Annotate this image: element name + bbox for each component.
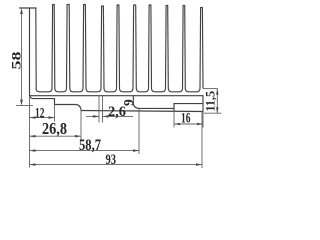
fin F4: [83, 5, 86, 89]
fin gap 7: [136, 88, 148, 92]
arrow 2,6 right (points left): [103, 115, 109, 118]
dim 26,8 line: [30, 135, 82, 137]
dim 58,7 line: [30, 150, 140, 152]
fin F2: [52, 5, 55, 89]
arrow 93 right: [196, 163, 202, 166]
dim 12 right extension: [54, 105, 56, 122]
left foot step edge x=54.5: [54, 99, 56, 105]
fin F5: [101, 6, 104, 88]
svg-text:9: 9: [121, 99, 136, 106]
arrow 2,6 left (points right): [93, 115, 99, 118]
fin gap 9: [168, 88, 182, 92]
dim 58 bottom tick: [16, 105, 33, 107]
dim 16 line: [174, 123, 203, 125]
pedestal step edge x=133: [132, 96, 134, 104]
right edge of profile: [202, 96, 204, 112]
fin F1 (left wall): [20, 8, 37, 88]
dim 93 right extension: [201, 112, 203, 168]
fin gap 5: [104, 88, 117, 92]
arrow 12 right: [49, 116, 55, 119]
arrow 58,7 right: [133, 149, 139, 152]
svg-text:16: 16: [181, 111, 191, 127]
fin gap 4: [86, 88, 101, 92]
svg-text:58: 58: [10, 52, 24, 70]
arrow 58 bottom: [20, 100, 23, 106]
svg-text:26,8: 26,8: [42, 119, 67, 138]
dim 11,5 top tick: [203, 88, 218, 90]
svg-text:11,5: 11,5: [204, 91, 218, 112]
left foot bottom y=104.5: [55, 104, 77, 106]
arrow 16 right: [197, 123, 203, 126]
right foot top y=103.6: [174, 103, 203, 105]
arrow 26,8 left: [30, 135, 36, 138]
fin gap 2: [55, 88, 67, 92]
arrow 58,7 left: [30, 149, 36, 152]
dim 2,6 line right segment: [103, 115, 134, 117]
fin F9: [166, 6, 169, 89]
left foot fillet to bottom plate: [76, 105, 81, 111]
bottom-left fillet and foot top y=98.5: [30, 96, 55, 99]
svg-text:93: 93: [106, 152, 117, 168]
dim 58 line: [21, 10, 23, 104]
right recess top y=108.5: [139, 107, 174, 109]
left extension line: [29, 96, 31, 168]
left edge of profile: [29, 8, 31, 96]
fin gap 1: [36, 88, 52, 92]
dim 2,6 extensions: [99, 96, 103, 123]
fin F3: [67, 5, 70, 89]
arrow 16 left: [174, 123, 180, 126]
fin gap 6: [120, 88, 134, 92]
dim 93 line: [30, 164, 203, 166]
pedestal step fillet: [133, 103, 139, 108]
dim 16 extensions: [174, 111, 203, 128]
base top line: [30, 95, 204, 97]
fin F7: [133, 5, 136, 88]
arrow 26,8 right: [75, 135, 81, 138]
arrow 12 left: [30, 116, 36, 119]
fin gap 3: [70, 88, 83, 92]
arrow 11,5 bottom: [216, 107, 219, 113]
fin F8: [149, 5, 152, 88]
arrow 93 left: [30, 163, 36, 166]
right foot left edge x=174: [173, 104, 175, 111]
fin gap 10: [185, 88, 200, 92]
fin F10: [183, 6, 186, 89]
fin gap 8: [152, 88, 166, 92]
bottom plate line y=111: [81, 111, 203, 112]
dim 11,5 bottom tick: [204, 112, 222, 114]
fin F6: [117, 5, 120, 88]
dim 2,6 line left segment: [86, 115, 99, 117]
dim 58,7 right extension: [138, 109, 140, 155]
dim 12 line: [30, 117, 55, 119]
arrow 58 top: [20, 8, 23, 14]
dim 26,8 right extension: [80, 111, 82, 141]
arrow 11,5 top: [216, 89, 219, 95]
fin F11: [200, 8, 203, 89]
dim 11,5 line: [216, 89, 218, 114]
svg-text:58,7: 58,7: [79, 137, 101, 154]
